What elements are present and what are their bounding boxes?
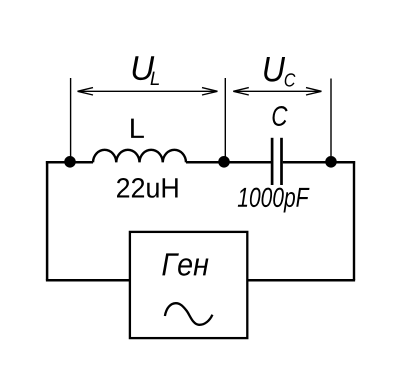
value label 1000pF — [238, 188, 310, 213]
wire: segment from capacitor to top-right corner — [283, 161, 355, 164]
dimension arrow for U_C (double-headed) — [233, 88, 321, 95]
wire: bottom-left horizontal segment to generator — [46, 279, 131, 282]
wire: bottom-right horizontal segment from generator — [247, 279, 356, 282]
generator sine-wave symbol — [165, 303, 213, 325]
generator label Ген — [162, 253, 208, 275]
extension line above node A — [70, 78, 72, 157]
extension line above node B — [224, 78, 226, 157]
node A (junction dot, left) — [64, 156, 76, 168]
capacitor C1 right plate — [280, 138, 283, 185]
extension line above node C — [330, 79, 332, 157]
node B (junction dot, middle) — [218, 156, 230, 168]
generator G1 box outline — [130, 232, 247, 338]
wire: top-left horizontal segment from corner to node A — [46, 161, 93, 164]
value label 22uH — [117, 178, 178, 198]
wire: left vertical side of loop — [46, 161, 49, 280]
capacitor C1 left plate — [271, 138, 274, 185]
wire: right vertical side of loop — [353, 161, 355, 280]
dimension arrow for U_L (double-headed) — [78, 88, 218, 95]
inductor L1 (22uH) winding arcs — [93, 150, 186, 163]
label U_L (voltage across inductor) — [133, 56, 159, 85]
label U_C (voltage across capacitor) — [264, 57, 295, 87]
label C (capacitor designator) — [273, 106, 288, 126]
wire: segment between inductor and node B — [186, 161, 272, 164]
label L (inductor designator) — [131, 119, 144, 138]
node C (junction dot, right) — [325, 156, 337, 168]
